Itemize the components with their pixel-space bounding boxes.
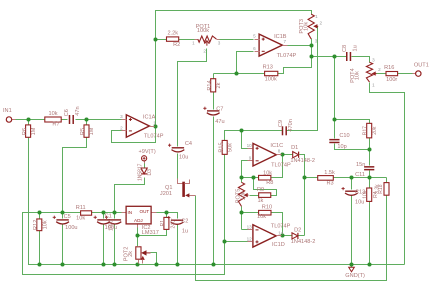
svg-text:13: 13 [247,225,253,230]
svg-text:14: 14 [278,231,284,236]
svg-text:5: 5 [253,34,256,39]
svg-text:1u: 1u [352,45,358,51]
svg-text:240r: 240r [171,218,177,228]
svg-text:50k: 50k [228,143,234,152]
svg-text:C9: C9 [278,120,284,127]
svg-text:ADJ: ADJ [134,218,143,223]
svg-text:R15: R15 [218,142,224,152]
svg-text:10p: 10p [337,144,346,150]
svg-text:D3: D3 [147,169,153,176]
svg-text:10k: 10k [263,171,272,177]
svg-text:1.5k: 1.5k [324,170,335,176]
svg-text:R18: R18 [378,184,384,193]
svg-text:15n: 15n [356,162,365,168]
svg-text:IN1: IN1 [3,108,12,114]
svg-text:1: 1 [372,83,375,88]
svg-text:1N4148-2: 1N4148-2 [291,239,316,245]
svg-text:9: 9 [249,155,252,160]
svg-text:10u: 10u [355,199,364,205]
svg-text:+9V(T): +9V(T) [138,149,155,155]
svg-text:C7: C7 [216,106,223,112]
svg-text:C2: C2 [181,219,188,225]
svg-text:TL074P: TL074P [271,223,291,229]
svg-text:R9: R9 [257,187,264,193]
svg-text:IN: IN [128,210,133,215]
svg-text:2.2k: 2.2k [168,31,179,37]
svg-text:1M: 1M [89,127,95,135]
svg-text:1N4148-2: 1N4148-2 [290,158,315,164]
svg-text:3: 3 [315,38,318,43]
svg-text:10k: 10k [257,214,266,220]
svg-text:C8: C8 [342,45,348,52]
svg-text:10k: 10k [355,71,361,80]
svg-text:TL074P: TL074P [144,133,164,139]
svg-text:GND(T): GND(T) [345,273,365,279]
svg-text:10k: 10k [42,220,48,229]
svg-text:D2: D2 [294,227,301,233]
svg-text:R11: R11 [76,205,86,211]
svg-text:6: 6 [253,46,256,51]
svg-text:2k: 2k [216,82,222,88]
svg-text:TL074P: TL074P [271,163,291,169]
svg-text:J201: J201 [160,191,172,197]
svg-text:TL074P: TL074P [277,53,297,59]
svg-text:470n: 470n [288,119,294,131]
svg-text:10k: 10k [48,111,57,117]
svg-text:1M: 1M [31,127,37,135]
svg-text:3: 3 [120,114,123,119]
svg-text:2: 2 [120,126,123,131]
svg-text:2k: 2k [128,251,134,257]
svg-text:10k: 10k [240,191,246,200]
svg-text:2: 2 [203,48,206,53]
svg-text:R13: R13 [263,65,273,71]
svg-text:100u: 100u [109,220,115,231]
svg-text:R6: R6 [22,128,28,135]
svg-text:OUT1: OUT1 [414,63,429,69]
svg-text:1N5817: 1N5817 [137,163,143,181]
svg-text:Q1: Q1 [165,185,172,191]
svg-text:R10: R10 [262,205,272,211]
svg-text:10k: 10k [363,190,369,199]
svg-text:IC1C: IC1C [270,143,283,149]
svg-text:100k: 100k [265,76,277,82]
svg-text:C10: C10 [339,133,349,139]
svg-text:2: 2 [320,20,323,25]
svg-text:10k: 10k [304,22,310,31]
svg-text:R7: R7 [52,122,59,128]
svg-text:12: 12 [247,237,253,242]
svg-text:1: 1 [153,120,156,125]
svg-text:R5: R5 [80,128,86,135]
svg-text:R14: R14 [207,80,213,90]
svg-text:20k: 20k [372,126,378,135]
svg-text:1k: 1k [257,198,263,204]
svg-text:R17: R17 [363,126,369,135]
svg-text:R3: R3 [327,181,334,187]
svg-text:7: 7 [284,39,287,44]
svg-text:C11: C11 [355,172,365,178]
svg-text:10k: 10k [76,216,85,222]
svg-text:8: 8 [278,148,281,153]
svg-text:2: 2 [378,67,381,72]
svg-text:OUT: OUT [140,209,150,214]
svg-text:C5: C5 [64,214,71,220]
svg-text:C1: C1 [105,213,112,219]
svg-text:R12: R12 [33,220,39,230]
svg-text:LM317: LM317 [142,230,159,236]
svg-text:3: 3 [218,41,221,46]
svg-text:R2: R2 [173,42,180,48]
svg-text:100u: 100u [65,225,77,231]
svg-text:10: 10 [247,143,253,148]
svg-text:1: 1 [315,14,318,19]
svg-text:C4: C4 [185,141,192,147]
svg-text:10u: 10u [179,155,188,161]
svg-text:47u: 47u [215,119,224,125]
svg-text:IC1D: IC1D [272,242,285,248]
svg-text:100k: 100k [197,28,209,34]
svg-text:1u: 1u [182,228,188,234]
svg-text:1: 1 [192,41,195,46]
svg-text:47n: 47n [75,106,81,115]
svg-text:R8: R8 [266,180,273,186]
svg-text:100r: 100r [386,77,397,83]
svg-text:3: 3 [372,57,375,62]
svg-text:R1: R1 [160,220,166,227]
svg-text:D1: D1 [291,145,298,151]
svg-text:C6: C6 [64,109,70,116]
svg-text:R16: R16 [384,65,394,71]
